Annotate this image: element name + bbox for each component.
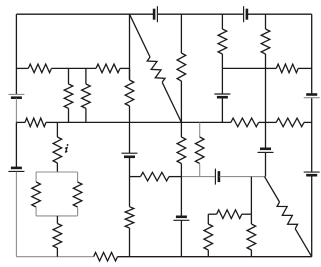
battery V6 on right border xyxy=(304,172,320,175)
resistor R15 on column D xyxy=(261,14,270,68)
wire bottom-left (gray) xyxy=(16,256,93,258)
battery V9 on column B xyxy=(173,217,189,221)
wire row-4 middle (gray) xyxy=(181,176,215,178)
resistor R6 on row-3 wire xyxy=(266,118,312,127)
resistor R12 on column A xyxy=(125,68,134,122)
wire row-4 right2 (gray) xyxy=(251,176,264,178)
resistor R21 box1 right xyxy=(73,172,82,216)
resistor R7 on row-4 wire xyxy=(130,172,182,181)
resistor R10 on column H xyxy=(64,68,73,122)
resistor R19 (current i) on column F xyxy=(53,122,62,172)
wire left border lower (gray) xyxy=(15,172,17,257)
wire column-C lower xyxy=(221,98,223,123)
wire row-2 right segment xyxy=(222,67,265,69)
resistor R25 diagonal upper xyxy=(130,14,182,122)
wire column-A upper xyxy=(129,14,131,79)
wire column-A mid xyxy=(129,122,131,153)
resistor R14 on column C xyxy=(218,14,227,68)
wire top-right segment xyxy=(247,13,311,15)
battery V2 on top wire xyxy=(244,6,247,22)
resistor R8 box2 top xyxy=(208,210,251,219)
wire bottom-right xyxy=(181,256,311,258)
wire box1 top edge (gray) xyxy=(36,171,78,173)
wire top-middle segment xyxy=(158,13,243,15)
wire row-3 middle xyxy=(57,121,230,123)
battery V1 on top wire xyxy=(154,6,157,22)
wire row-4 right (gray) xyxy=(219,176,251,178)
battery V4 on left border xyxy=(8,168,24,172)
resistor R11 on column I xyxy=(82,68,91,122)
resistor R23 box2 right xyxy=(247,214,256,257)
battery V10 on column C xyxy=(214,94,230,97)
wire top-left segment xyxy=(16,13,153,15)
resistor R16 on column A xyxy=(125,177,134,257)
wire column-D mid xyxy=(265,68,267,148)
resistor R20 box1 left xyxy=(32,172,41,216)
wire left border upper xyxy=(15,14,17,94)
battery V3 on left border xyxy=(8,94,24,97)
wire column-B lower xyxy=(180,177,182,217)
resistor R13 on column B xyxy=(177,14,186,122)
wire column-C mid xyxy=(221,68,223,94)
resistor R17 on column B xyxy=(177,122,186,176)
resistor R24 below box1 xyxy=(53,216,62,257)
resistor R1 on row-2 wire xyxy=(16,64,68,73)
wire right border middle xyxy=(311,98,313,172)
battery V8 on column A xyxy=(122,153,138,157)
resistor R22 box2 left xyxy=(204,214,213,257)
resistor R26 diagonal lower xyxy=(265,177,312,257)
resistor R5 on row-3 wire xyxy=(231,118,266,127)
wire column-B bottom xyxy=(180,221,182,257)
wire box1 bottom edge (gray) xyxy=(36,215,78,217)
wire right border upper xyxy=(311,14,313,94)
wire column-A mid2 xyxy=(129,157,131,177)
wire left border mid2 xyxy=(15,122,17,167)
resistor R18 on column J xyxy=(195,122,204,176)
wire column-K upper xyxy=(250,177,252,215)
resistor R4 on row-3 wire xyxy=(16,118,57,127)
resistor R2 on row-2 wire xyxy=(69,64,130,73)
resistor R9 on bottom wire xyxy=(94,252,182,261)
battery V7 on row-4 wire xyxy=(215,169,219,185)
battery V11 on column D xyxy=(258,149,274,153)
battery V5 on right border xyxy=(304,95,320,98)
wire right border lower xyxy=(311,176,313,257)
wire column-D lower xyxy=(265,153,267,177)
wire left border middle (gray) xyxy=(15,98,17,122)
resistor R3 on row-2 right xyxy=(266,64,312,73)
current label i xyxy=(65,144,69,152)
